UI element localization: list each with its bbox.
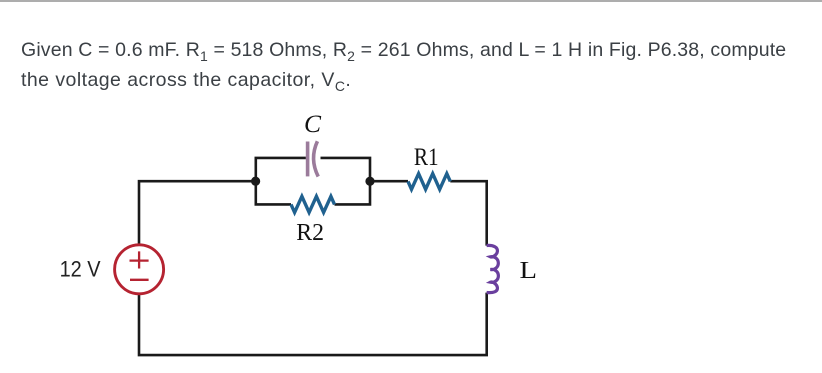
resistor R1: [408, 174, 450, 190]
wire R1 to top-right corner + right vertical upper: [450, 181, 486, 245]
inductor L: [487, 245, 499, 292]
wire top-left horizontal + left vertical upper: [139, 181, 256, 244]
svg-text:12 V: 12 V: [60, 257, 101, 282]
wire parallel box right side: top branch + right vertical + bottom branch: [321, 158, 371, 205]
svg-text:R1: R1: [414, 144, 439, 171]
wire node to R1: [370, 180, 408, 183]
resistor R2: [291, 196, 335, 212]
wire left vertical lower + bottom horizontal + right vertical lower: [139, 293, 487, 356]
svg-text:R2: R2: [296, 220, 324, 246]
capacitor C: [308, 141, 319, 176]
svg-text:C: C: [304, 109, 322, 138]
node right junction dot: [365, 177, 374, 186]
svg-text:L: L: [520, 258, 538, 284]
voltage source 12V: [115, 245, 164, 294]
wire parallel box left side: top branch + left vertical + bottom branch: [256, 158, 306, 205]
node left junction dot: [251, 177, 260, 186]
